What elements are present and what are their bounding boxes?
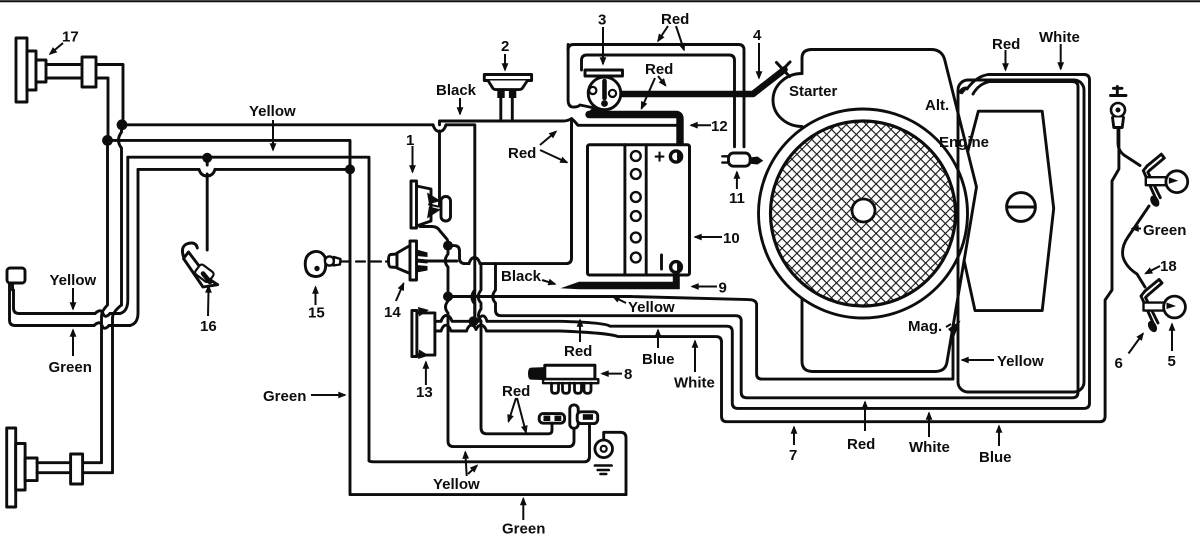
wire: v1 from line B dot down to bottom lamp top lead bbox=[83, 140, 108, 462]
lamp 18 assembly bbox=[1118, 143, 1188, 208]
component 1 (interlock switch connector) bbox=[411, 181, 451, 228]
ground symbol bbox=[595, 440, 613, 474]
label White engine arrow bbox=[1060, 44, 1062, 69]
svg-text:Red: Red bbox=[847, 436, 875, 453]
svg-text:Green: Green bbox=[49, 359, 92, 376]
label 9 arrow bbox=[692, 286, 717, 288]
label Green left arrow bbox=[311, 394, 345, 396]
wire: line D hop under comp16 stub bbox=[199, 169, 215, 176]
wire: green bottom corner up to ground bridge bbox=[604, 432, 626, 494]
label Red engine arrow bbox=[1005, 50, 1007, 70]
component 8 (PTO switch) bbox=[530, 365, 599, 393]
label 18 arrow bbox=[1146, 266, 1161, 274]
svg-text:10: 10 bbox=[723, 230, 740, 247]
label Yellow right arrow bbox=[962, 359, 994, 361]
wire: yellow mag lead arrow up bbox=[953, 330, 955, 336]
wire: comp16 stub down from dot bbox=[206, 158, 209, 250]
label 15 arrow bbox=[315, 287, 317, 305]
svg-text:+: + bbox=[654, 147, 665, 168]
wire: left connector green lead bbox=[10, 283, 131, 326]
label Green leftlow arrow bbox=[72, 330, 74, 356]
wire: white bundle line from comp13 pin2 bbox=[436, 128, 1119, 422]
svg-text:Red: Red bbox=[564, 343, 592, 360]
label 11 arrow bbox=[736, 172, 738, 189]
svg-text:4: 4 bbox=[753, 27, 762, 44]
wire: thick negative cable from battery bbox=[561, 272, 680, 289]
component 2 (plunger switch) bbox=[484, 75, 531, 99]
svg-text:White: White bbox=[909, 439, 950, 456]
flywheel center hole bbox=[852, 199, 875, 222]
svg-text:White: White bbox=[674, 375, 715, 392]
label 7 arrow bbox=[793, 427, 795, 445]
screw head bbox=[1007, 193, 1036, 222]
wire: yellow lower line from v369 corner to connector B-right bbox=[369, 425, 590, 462]
label Red bundle arrow bbox=[579, 320, 581, 342]
wire: black wire from corner x439.5 along y121 to red vertical bbox=[440, 119, 677, 126]
svg-text:Mag.: Mag. bbox=[908, 318, 942, 335]
svg-text:7: 7 bbox=[789, 447, 797, 464]
wire: R1 red run top bbox=[568, 45, 744, 147]
svg-text:Yellow: Yellow bbox=[628, 299, 675, 316]
component 3 (ignition switch) bbox=[585, 70, 623, 110]
node: dot yellow line x448 bbox=[443, 292, 453, 302]
wire: v4 line D corner down joins left green bbox=[130, 169, 138, 325]
svg-text:Yellow: Yellow bbox=[50, 272, 97, 289]
svg-text:3: 3 bbox=[598, 12, 606, 29]
wire: v481 from red run down to connector A feed bbox=[478, 264, 552, 434]
svg-text:Red: Red bbox=[502, 383, 530, 400]
label Yellow topleft arrow bbox=[272, 120, 274, 150]
svg-text:Yellow: Yellow bbox=[433, 476, 480, 493]
connector B (spade connector) bbox=[570, 405, 598, 428]
wire: v448 continue down to connector B-left feed bbox=[446, 297, 575, 447]
label Red top arrows bbox=[658, 26, 668, 41]
node: dot line D joins green vertical bbox=[345, 164, 355, 174]
label 3 bbox=[602, 27, 604, 64]
label 14 arrow bbox=[396, 284, 404, 302]
wire: v3 line C corner down joins left yellow bbox=[120, 157, 128, 313]
alt terminal hook bbox=[959, 87, 967, 93]
svg-text:5: 5 bbox=[1168, 353, 1176, 370]
svg-text:Green: Green bbox=[1143, 222, 1186, 239]
svg-text:1: 1 bbox=[406, 132, 414, 149]
label Red midleft arrows bbox=[540, 132, 556, 146]
component: cable clamp X at starter bbox=[775, 62, 790, 78]
lamp lower left headlight bbox=[7, 428, 83, 507]
label Red bottom arrow bbox=[864, 402, 866, 431]
wire: line A (yellow feed) from dot right to corner, down at x475 bbox=[122, 125, 475, 319]
label 17 bbox=[50, 43, 63, 54]
component 14 (connector plug) bbox=[389, 241, 428, 280]
label 1 bbox=[412, 146, 414, 172]
wire: v448 from dot down to yellow dot, hop comp14 pin line bbox=[445, 246, 448, 291]
label 10 arrow bbox=[695, 236, 722, 238]
svg-text:White: White bbox=[1039, 29, 1080, 46]
svg-text:Starter: Starter bbox=[789, 83, 838, 100]
node: junction dot line A bbox=[117, 119, 128, 130]
label 4 bbox=[758, 43, 760, 78]
label 5 arrow bbox=[1171, 324, 1173, 351]
terminal 18 (fuse holder top) bbox=[1111, 87, 1127, 144]
label Red lower arrows bbox=[509, 398, 517, 422]
wire: line C (yellow) from corner x127.8 right to corner x369 bbox=[128, 157, 369, 461]
svg-text:11: 11 bbox=[729, 190, 745, 207]
node: dot where line A vertical joins blue wire bbox=[469, 316, 479, 326]
lamp 5 and bracket 6 assembly bbox=[1123, 206, 1186, 334]
label Yellow bottom arrows bbox=[465, 452, 466, 476]
node: dot comp1 tail bbox=[443, 241, 453, 251]
wire: left yellow hop marks bbox=[95, 311, 110, 317]
svg-text:Yellow: Yellow bbox=[249, 103, 296, 120]
flywheel screen (crosshatched) bbox=[771, 121, 956, 306]
starter bump bbox=[773, 74, 802, 131]
svg-text:18: 18 bbox=[1160, 258, 1177, 275]
label Black mid arrow bbox=[542, 280, 555, 284]
label Green right arrow bbox=[1132, 228, 1141, 230]
wire: v495.5 from red run down corner into red bundle line bbox=[493, 82, 1078, 398]
wire: line B from dot right, corner down x350 (green run) bbox=[108, 140, 627, 494]
svg-text:Alt.: Alt. bbox=[925, 97, 949, 114]
battery - terminal bbox=[671, 262, 682, 273]
label 13 arrow bbox=[425, 362, 427, 385]
svg-text:Red: Red bbox=[992, 36, 1020, 53]
label Red switch arrows bbox=[658, 76, 666, 86]
label 12 arrow bbox=[691, 124, 711, 126]
wire: comp2 left leg down to black wire bbox=[499, 97, 502, 121]
wire: line A hop under vertical x439.5 bbox=[433, 125, 446, 132]
engine block outline bbox=[773, 50, 977, 372]
label White bundle arrow bbox=[694, 341, 696, 372]
label Green bottom arrow bbox=[522, 499, 524, 521]
wire: lamp17 top lead to line A bbox=[96, 65, 123, 120]
connector A (bullet connector pair) bbox=[539, 414, 564, 424]
svg-text:Red: Red bbox=[508, 145, 536, 162]
component 16 (key/lever) bbox=[182, 243, 217, 287]
svg-text:Black: Black bbox=[436, 82, 477, 99]
rear shroud panel rect bbox=[958, 80, 1084, 392]
wire: blue hop over v448 bbox=[441, 316, 452, 322]
lamp 17 (upper left headlight) bbox=[16, 38, 96, 102]
node: dot on line C for comp16 stub bbox=[202, 153, 212, 163]
label 2 bbox=[504, 54, 506, 70]
label Black top arrow bbox=[459, 98, 461, 114]
wire: comp1 tail down to dot bbox=[420, 227, 448, 246]
label Yellow mid arrow bbox=[613, 297, 626, 304]
svg-text:Red: Red bbox=[645, 61, 673, 78]
label 6 arrow bbox=[1129, 334, 1144, 354]
svg-text:Blue: Blue bbox=[979, 449, 1012, 466]
wire: yellow bundle line y297 from dot to right corner down x756.6 bbox=[448, 297, 953, 380]
wire: v474.8 hop over yellow line bbox=[472, 290, 475, 315]
wire: red run from dot right/down/right/up to switch area bbox=[448, 124, 572, 264]
svg-text:Green: Green bbox=[502, 521, 545, 538]
svg-text:17: 17 bbox=[62, 29, 79, 46]
wire: v2 hop over line B bbox=[119, 125, 122, 305]
wire: red vertical from bump down to harness bbox=[570, 121, 573, 258]
svg-text:14: 14 bbox=[384, 304, 401, 321]
svg-text:15: 15 bbox=[308, 305, 325, 322]
wire: left green hop marks bbox=[94, 323, 109, 329]
wire: blue bundle line from comp13 pin1 bbox=[436, 75, 1090, 409]
label Yellow left arrow bbox=[72, 288, 74, 309]
wire: main harness vertical x439.5 down through comp1 bbox=[438, 131, 441, 206]
wire: left connector yellow lead bbox=[14, 290, 121, 314]
wire: lamp17 bottom lead to line B bbox=[96, 78, 108, 135]
fuse 11 bbox=[722, 153, 763, 166]
label 8 arrow bbox=[602, 373, 622, 375]
svg-text:12: 12 bbox=[711, 118, 728, 135]
wire: comp14 pin line bbox=[427, 260, 457, 263]
label White bottom arrow bbox=[928, 413, 930, 437]
svg-text:Black: Black bbox=[501, 268, 542, 285]
mag terminal arrowhead bbox=[948, 321, 961, 337]
wire: switch feed hook to R1 run bbox=[568, 45, 592, 108]
svg-text:Engine: Engine bbox=[939, 134, 989, 151]
wire: line D from corner x138 to dot at green vertical bbox=[138, 168, 350, 171]
rear panel plate (hexagon) bbox=[964, 111, 1054, 310]
border top bbox=[0, 0, 1200, 2]
battery + terminal bbox=[670, 151, 681, 162]
label Mag arrow bbox=[946, 324, 951, 327]
svg-text:Blue: Blue bbox=[642, 351, 675, 368]
wire: y263.6 hop over line-A vertical bbox=[469, 258, 480, 264]
connector (small square, left) bbox=[7, 268, 25, 290]
wire: white hops bbox=[441, 325, 487, 331]
battery 10 bbox=[588, 145, 690, 275]
svg-text:2: 2 bbox=[501, 38, 509, 55]
wire: comp2 right leg down to black wire bbox=[511, 97, 514, 121]
flywheel housing outer circle bbox=[759, 109, 968, 318]
component 15 (indicator light) bbox=[305, 251, 391, 276]
wire: thick starter cable from switch bbox=[614, 70, 785, 95]
svg-text:6: 6 bbox=[1115, 355, 1123, 372]
label 16 arrow bbox=[207, 286, 210, 316]
wire: v2 continue down to bottom lamp bottom lead bbox=[83, 305, 122, 473]
svg-text:16: 16 bbox=[200, 318, 217, 335]
wire: blue hop over v481 and v495.5 bbox=[479, 316, 488, 322]
label Blue bundle arrow bbox=[657, 330, 659, 348]
node: junction dot line B bbox=[102, 135, 113, 146]
component 13 (connector) bbox=[412, 307, 435, 359]
svg-text:13: 13 bbox=[416, 384, 433, 401]
svg-text:8: 8 bbox=[624, 366, 632, 383]
label Blue bottom arrow bbox=[998, 426, 1000, 446]
svg-text:Red: Red bbox=[661, 11, 689, 28]
wire: R2 red run top from switch bar bbox=[582, 55, 735, 147]
svg-text:9: 9 bbox=[719, 280, 727, 297]
svg-text:Yellow: Yellow bbox=[997, 353, 1044, 370]
wire: thick battery positive cable bbox=[589, 103, 680, 149]
svg-text:Green: Green bbox=[263, 388, 306, 405]
